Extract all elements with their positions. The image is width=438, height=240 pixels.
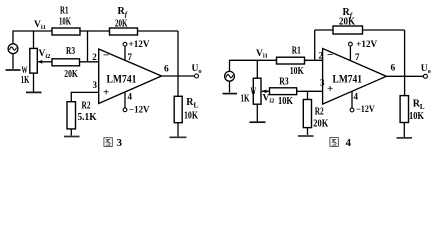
resistor RF (110, 28, 138, 35)
wire R3 to pin 2 of U1 (80, 61, 99, 63)
wire pot bottom to ground (256, 104, 258, 121)
wire RF left vertical to pin2 node (314, 30, 316, 60)
wire RF loop top right (363, 29, 405, 31)
output terminal Uo circle (195, 74, 199, 78)
svg-text:R3: R3 (279, 77, 289, 88)
resistor R2 (67, 102, 76, 129)
svg-text:−12V: −12V (129, 105, 150, 115)
svg-text:7: 7 (128, 52, 133, 62)
svg-text:7: 7 (355, 52, 360, 62)
AC source sine wave (10, 47, 17, 50)
ground for AC source right (223, 93, 238, 95)
ground for potentiometer (26, 91, 42, 93)
wire RL bottom to ground (403, 123, 405, 138)
wire R3 to pin 3 of U2 (297, 90, 323, 92)
svg-text:2: 2 (319, 50, 324, 60)
wire output column vertical (177, 31, 179, 96)
wire wiper to R3 (262, 90, 270, 92)
wire R2 junction vertical (307, 91, 309, 99)
wire Vi1 input from source to R1 (13, 31, 52, 44)
svg-text:3: 3 (320, 78, 325, 88)
resistor R3 (52, 59, 80, 66)
output terminal Uo circle right (423, 74, 427, 78)
wire pin 7 to +12V (124, 46, 126, 60)
ground for AC source (6, 69, 21, 71)
svg-text:4: 4 (346, 137, 352, 149)
AC source G1 circle (8, 44, 18, 54)
ground for R2 (64, 136, 80, 138)
wire RF right vertical to output (404, 30, 406, 96)
wire wiper to R3 (37, 61, 52, 63)
resistor RL (174, 96, 182, 122)
svg-text:R1: R1 (60, 6, 69, 17)
svg-text:+12V: +12V (129, 39, 150, 49)
svg-text:3: 3 (117, 137, 123, 149)
svg-text:20K: 20K (115, 19, 128, 30)
ground for R2 right (298, 135, 314, 137)
svg-text:10K: 10K (278, 96, 293, 107)
AC source sine wave right (226, 75, 233, 78)
svg-text:2: 2 (92, 52, 97, 62)
wire output from U1 pin 6 (162, 75, 195, 77)
resistor R3 right (270, 88, 297, 95)
svg-text:R2: R2 (82, 101, 91, 112)
svg-text:10K: 10K (290, 66, 304, 77)
potentiometer W body (30, 48, 38, 73)
wire RL bottom to ground (177, 123, 179, 137)
wire node A vertical to pin2 (87, 31, 89, 62)
caption figure 3 (104, 137, 123, 149)
wire pot top from Vi1 node (33, 31, 35, 48)
svg-text:R3: R3 (66, 46, 75, 57)
wire source bottom to ground (229, 81, 231, 92)
svg-text:+12V: +12V (356, 39, 377, 49)
wire R2 bottom to ground (70, 129, 72, 136)
wire pot bottom to ground (33, 73, 35, 92)
svg-text:20K: 20K (64, 69, 78, 80)
wire source bottom to ground (12, 54, 14, 69)
wire RF to output column (138, 30, 179, 32)
svg-text:−12V: −12V (356, 104, 375, 114)
wire output from U2 pin 6 (386, 75, 423, 77)
svg-text:+: + (103, 87, 109, 99)
svg-text:LM741: LM741 (107, 74, 137, 86)
svg-text:5.1K: 5.1K (78, 112, 97, 123)
op-amp U2 triangle (323, 49, 387, 105)
potentiometer wiper arrow (37, 60, 42, 64)
svg-text:10K: 10K (184, 110, 198, 121)
svg-text:6: 6 (391, 63, 396, 73)
wire Vi1 from source to R1 (230, 60, 277, 71)
wire pin 7 to +12V (349, 46, 351, 61)
svg-text:1K: 1K (241, 93, 250, 104)
wire pin 4 to -12V (351, 91, 353, 108)
svg-text:−: − (327, 49, 333, 61)
op-amp U1 triangle (99, 49, 162, 104)
svg-text:20K: 20K (339, 17, 355, 28)
svg-text:R2: R2 (315, 107, 324, 118)
svg-text:R1: R1 (292, 45, 301, 56)
svg-text:LM741: LM741 (333, 74, 363, 86)
wire pot top from Vi1 node (256, 60, 258, 78)
caption figure 4 (330, 137, 352, 149)
wire R1 to pin 2 of U2 (305, 59, 323, 61)
resistor RF right (333, 26, 363, 34)
resistor RL right (400, 96, 408, 123)
-12V terminal circle right (350, 108, 354, 112)
+12V terminal circle (123, 42, 127, 46)
ground for potentiometer right (250, 121, 266, 123)
potentiometer W body right (253, 78, 261, 104)
resistor R1 right (277, 57, 305, 64)
svg-text:−: − (103, 50, 109, 62)
ground for RL right (397, 137, 413, 139)
svg-text:6: 6 (164, 64, 169, 74)
svg-text:3: 3 (93, 80, 98, 90)
ground for RL (170, 136, 187, 138)
svg-text:W: W (251, 87, 257, 97)
resistor R1 (52, 28, 80, 35)
AC source G2 circle (225, 71, 235, 81)
svg-text:10K: 10K (409, 111, 424, 122)
-12V terminal circle (123, 108, 127, 112)
svg-text:1K: 1K (21, 75, 30, 86)
svg-text:4: 4 (128, 91, 133, 101)
potentiometer wiper arrow right (262, 90, 267, 94)
wire RF loop top left (315, 29, 333, 31)
wire R2 bottom to ground (307, 128, 309, 135)
svg-text:4: 4 (354, 91, 359, 101)
resistor R2 right (303, 100, 311, 128)
svg-text:20K: 20K (313, 118, 328, 129)
svg-text:10K: 10K (59, 16, 71, 27)
wire R1 to node A to RF (80, 30, 110, 32)
wire pin 3 to R2 (71, 92, 98, 101)
wire pin 4 to -12V (124, 92, 126, 108)
+12V terminal circle right (349, 42, 353, 46)
